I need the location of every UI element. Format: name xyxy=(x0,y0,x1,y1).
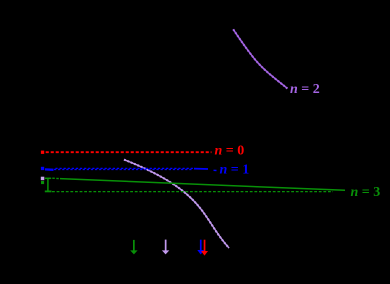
line n=1 solid end xyxy=(194,168,208,170)
arrow red xyxy=(201,240,208,256)
line n=3 solid xyxy=(60,179,345,191)
line n=3 dashed xyxy=(52,191,333,193)
errorbar n=3 xyxy=(45,178,52,191)
arrow violet xyxy=(162,240,169,255)
line n=3 solid start dashes xyxy=(52,177,60,179)
line n=0 dashed xyxy=(46,151,212,153)
line n=1 dashed row a xyxy=(54,167,195,169)
marker violet xyxy=(41,177,45,181)
svg-text:n = 2: n = 2 xyxy=(290,82,320,97)
marker n=3 xyxy=(41,181,44,184)
line n=1 solid start xyxy=(45,168,54,171)
line n=1 dashed row b xyxy=(54,168,193,170)
marker n=0 xyxy=(41,151,44,154)
svg-text:n = 3: n = 3 xyxy=(351,185,381,200)
svg-text:n = 1: n = 1 xyxy=(220,163,250,178)
curve n=2 xyxy=(233,29,287,88)
arrow blue xyxy=(197,240,204,255)
curve light (falling state) xyxy=(124,160,229,248)
line n=1 end dash xyxy=(214,169,217,171)
marker n=1 xyxy=(41,167,44,170)
svg-text:n = 0: n = 0 xyxy=(215,144,245,159)
arrow green xyxy=(130,240,137,255)
